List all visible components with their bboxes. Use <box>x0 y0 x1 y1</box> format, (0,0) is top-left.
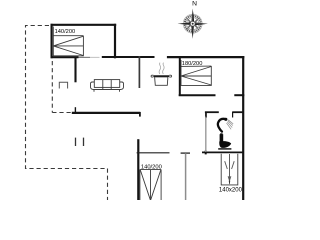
wall left outer <box>50 24 52 58</box>
wall top-right bedroom bottom left part <box>179 94 216 96</box>
wall bathroom top right piece <box>232 111 243 113</box>
wall living room bottom <box>72 112 141 114</box>
jamb tick bathroom top left <box>205 112 207 118</box>
wall top-right bedroom left <box>179 56 181 96</box>
bed4 140x200 bottom-right <box>221 154 238 185</box>
wall left-of-living vertical <box>74 58 76 83</box>
wall bathroom top <box>205 111 219 113</box>
jamb tick up at living wall left end <box>74 107 76 113</box>
svg-text:140/200: 140/200 <box>141 165 162 171</box>
terrace dashed outline left <box>26 26 108 201</box>
wall top-left bedroom right <box>114 24 116 59</box>
compass rose <box>178 9 208 39</box>
cooking pot <box>151 63 172 86</box>
opening tick a <box>75 138 77 146</box>
wall lower-middle room right <box>185 153 187 200</box>
wall bathroom bottom <box>202 151 244 153</box>
wall right outer <box>242 56 244 200</box>
jamb tick bathroom top right <box>232 112 234 118</box>
wall stub kitchen <box>138 56 140 88</box>
wall bathroom left lower gray <box>205 117 207 153</box>
wall top-left bedroom top <box>51 24 117 26</box>
bed1 140/200 top-left <box>53 27 83 56</box>
svg-text:N: N <box>192 1 197 8</box>
bed3 140/200 bottom-middle <box>140 170 161 200</box>
threshold thin line <box>79 56 91 58</box>
wall left of lower-middle room <box>137 139 139 200</box>
wall bathroom left <box>205 112 207 117</box>
bed2 180/200 top-right <box>181 60 211 85</box>
wall top-right bedroom bottom right part <box>234 94 244 96</box>
wall lower-middle room top thin <box>137 152 170 154</box>
opening tick b <box>83 138 85 146</box>
toilet <box>218 133 231 149</box>
wall below bed1 <box>51 56 79 58</box>
wall mid horizontal <box>102 56 155 58</box>
table <box>59 82 67 88</box>
svg-text:180/200: 180/200 <box>182 61 203 67</box>
wall corner nub bathroom <box>205 151 207 155</box>
jamb tick down at living wall right end <box>139 112 141 117</box>
wall cap T <box>181 152 190 154</box>
sofa <box>91 80 124 92</box>
wall top-right bedroom top <box>167 56 244 58</box>
svg-text:140x200: 140x200 <box>219 188 243 194</box>
svg-text:140/200: 140/200 <box>55 29 76 35</box>
shower head <box>218 118 233 132</box>
threshold faint <box>90 56 100 58</box>
